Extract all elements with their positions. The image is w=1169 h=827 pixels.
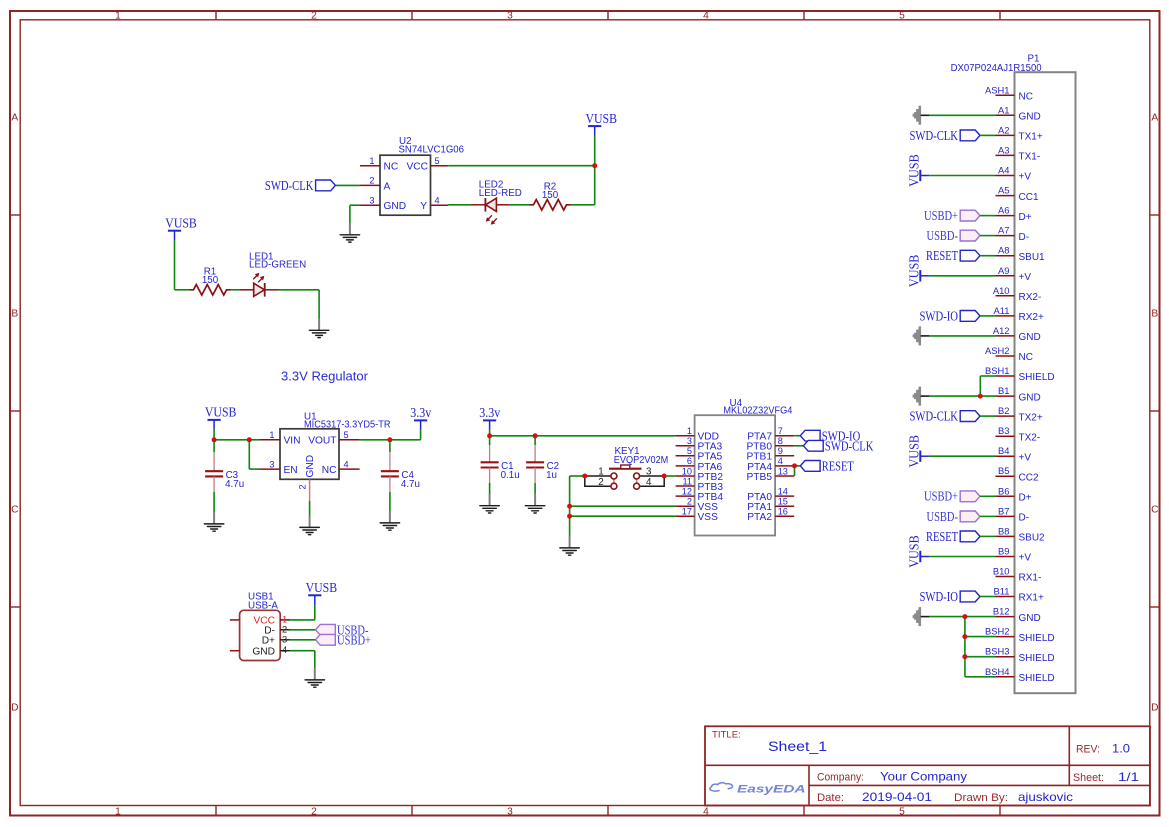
svg-text:D+: D+	[1019, 212, 1032, 223]
pin A10 of P1	[996, 295, 1015, 297]
svg-text:3: 3	[369, 195, 374, 205]
svg-text:TX1+: TX1+	[1019, 132, 1043, 143]
net flag USBD- at P1.A7	[927, 228, 981, 243]
svg-text:RX1+: RX1+	[1019, 593, 1044, 604]
svg-text:BSH3: BSH3	[985, 646, 1010, 657]
wire BSH1 branch vertical	[979, 376, 981, 396]
junction VSS rail / VSS pin 2	[567, 504, 572, 509]
frame row labels right	[1151, 113, 1158, 714]
wire shield rail to BSH2	[965, 636, 996, 638]
svg-text:1: 1	[115, 10, 121, 21]
svg-text:SHIELD: SHIELD	[1019, 673, 1055, 684]
svg-text:+V: +V	[1019, 452, 1032, 463]
svg-text:3: 3	[507, 10, 513, 21]
wire VUSB down to VCC net	[594, 136, 596, 166]
svg-text:A9: A9	[998, 265, 1009, 276]
svg-text:+V: +V	[1019, 272, 1032, 283]
pin 5 PTA5 of U4	[676, 455, 695, 457]
wire USBD- at P1.A7 to P1	[980, 235, 996, 237]
wire to RESET flag	[795, 465, 801, 467]
ground at C4	[380, 512, 399, 530]
pin 7 PTA7 of U4	[775, 435, 794, 437]
junction B12 / shield rail	[962, 614, 967, 619]
svg-text:2019-04-01: 2019-04-01	[862, 791, 932, 804]
svg-text:VUSB: VUSB	[907, 535, 922, 568]
capacitor C3	[205, 471, 223, 476]
wire VSS rail to U4.VSS(17)	[570, 515, 676, 517]
svg-text:A11: A11	[994, 305, 1010, 316]
junction RESET / PTB5	[792, 463, 797, 468]
capacitor C1	[481, 462, 499, 467]
wire RESET at P1.B8 to P1	[980, 535, 996, 537]
svg-text:5: 5	[899, 807, 905, 818]
svg-text:Sheet_1: Sheet_1	[768, 739, 827, 754]
wire C4 to ground	[389, 492, 391, 512]
svg-text:3.3v: 3.3v	[479, 405, 500, 420]
svg-text:4: 4	[703, 807, 709, 818]
svg-text:B7: B7	[998, 505, 1009, 516]
pin 2 of USB1	[280, 629, 290, 631]
pin leg (C3 top leg)	[213, 452, 215, 471]
pin B8 of P1	[996, 535, 1015, 537]
wire SWD-CLK at P1.A2 to P1	[980, 134, 996, 136]
wire SWD-IO at P1.B11 to P1	[980, 596, 996, 598]
junction B1 / BSH1	[978, 394, 983, 399]
pin 16 PTA2 of U4	[775, 515, 794, 517]
pin 13 PTB5 of U4	[775, 475, 794, 477]
svg-text:EN: EN	[284, 465, 298, 476]
ground flag GND at P1.A1	[913, 106, 930, 125]
pin 6 PTA6 of U4	[676, 465, 695, 467]
svg-text:16: 16	[778, 507, 788, 517]
junction VUSB / C3	[212, 437, 217, 442]
frame column ticks bottom	[216, 806, 1000, 816]
title block frame	[705, 726, 1150, 805]
wire BSH1 branch to P1	[980, 375, 995, 377]
svg-text:ajuskovic: ajuskovic	[1018, 791, 1073, 804]
wire U1.GND to ground	[309, 501, 311, 517]
wire shield rail to BSH3	[965, 656, 996, 658]
svg-text:Your Company: Your Company	[880, 771, 967, 784]
pin BSH2 of P1	[996, 636, 1015, 638]
svg-text:B4: B4	[998, 445, 1009, 456]
svg-text:B6: B6	[998, 485, 1009, 496]
pin leg (C3 bottom leg)	[213, 476, 215, 492]
wire SWD-IO at P1.A11 to P1	[980, 315, 996, 317]
svg-text:VSS: VSS	[698, 512, 719, 523]
svg-text:2: 2	[298, 484, 308, 489]
junction C2 / rail	[533, 433, 538, 438]
wire VUSB to P1 (P1.B4)	[929, 455, 995, 457]
svg-text:EVQP2V02M: EVQP2V02M	[614, 455, 669, 466]
svg-text:VOUT: VOUT	[308, 436, 336, 447]
pin leg (C1 bottom leg)	[489, 468, 491, 484]
svg-text:A: A	[11, 113, 18, 124]
svg-text:TX2-: TX2-	[1019, 432, 1041, 443]
wire U2.Y to LED2	[448, 204, 470, 206]
connector P1 DX07P024AJ1R1500 body	[1015, 72, 1076, 693]
wire LED1 to ground corner	[278, 289, 319, 291]
svg-text:5: 5	[344, 430, 349, 440]
svg-text:1.0: 1.0	[1112, 743, 1130, 756]
wire U2.VCC to VUSB	[448, 165, 595, 167]
wire into C3 leg	[213, 440, 215, 452]
svg-text:B9: B9	[998, 546, 1009, 557]
pin leg (C4 bottom leg)	[389, 476, 391, 492]
svg-text:4: 4	[435, 195, 440, 205]
svg-text:2: 2	[687, 497, 692, 507]
wire USB1.GND	[290, 650, 315, 652]
svg-text:SWD-CLK: SWD-CLK	[825, 438, 874, 453]
ground at U2	[340, 224, 359, 242]
pin 4 of USB1	[280, 650, 290, 652]
svg-text:SWD-IO: SWD-IO	[920, 308, 959, 323]
svg-text:USBD+: USBD+	[924, 489, 958, 504]
net flag USBD- at P1.B7	[927, 509, 981, 524]
junction shield rail / BSH3	[962, 654, 967, 659]
op-amp/inverter U2 SN74LVC1G06 body	[380, 155, 431, 215]
pin B6 of P1	[996, 495, 1015, 497]
svg-text:150: 150	[202, 275, 219, 286]
svg-text:1: 1	[369, 156, 374, 166]
svg-text:SWD-IO: SWD-IO	[920, 589, 959, 604]
wire C1 to ground	[489, 483, 491, 495]
net flag USBD- at USB1	[316, 622, 369, 637]
pin A8 of P1	[996, 255, 1015, 257]
svg-text:SHIELD: SHIELD	[1019, 633, 1055, 644]
svg-text:EasyEDA: EasyEDA	[737, 784, 806, 796]
svg-text:VUSB: VUSB	[907, 154, 922, 187]
svg-text:USBD-: USBD-	[927, 228, 959, 243]
wire USB1.D- to USBD- flag	[290, 629, 316, 631]
svg-text:CC1: CC1	[1019, 192, 1039, 203]
svg-text:B11: B11	[994, 586, 1010, 597]
pin 17 VSS of U4	[676, 515, 695, 517]
junction shield rail / BSH2	[962, 634, 967, 639]
svg-text:GND: GND	[1019, 112, 1041, 123]
pin B2 of P1	[996, 415, 1015, 417]
LED LED1	[253, 273, 265, 297]
svg-text:D+: D+	[1019, 493, 1032, 504]
svg-text:Date:: Date:	[817, 792, 844, 804]
svg-text:B12: B12	[993, 606, 1010, 617]
wire U4.PTA7 to SWD-IO flag	[794, 435, 800, 437]
net flag USBD+ at P1.A6	[924, 208, 980, 223]
power flag 3.3v at regulator output	[410, 405, 431, 430]
frame row ticks right	[1150, 215, 1160, 607]
pin 12 PTB4 of U4	[676, 495, 695, 497]
microcontroller U4 MKL02Z32VFG4 body	[695, 415, 776, 535]
svg-text:USBD+: USBD+	[337, 632, 371, 647]
svg-text:14: 14	[778, 486, 788, 496]
svg-text:VIN: VIN	[284, 436, 301, 447]
svg-text:1u: 1u	[546, 470, 557, 481]
ground at U1	[300, 517, 319, 535]
wire VUSB to R1	[175, 289, 190, 291]
power flag VUSB at LED1 branch	[165, 216, 197, 241]
pin 1 of USB1	[280, 619, 290, 621]
pin B11 of P1	[996, 596, 1015, 598]
svg-text:TITLE:: TITLE:	[712, 730, 741, 741]
wire U2.GND horizontal	[350, 204, 360, 206]
svg-text:B1: B1	[998, 385, 1009, 396]
svg-text:CC2: CC2	[1019, 472, 1039, 483]
svg-text:RX2+: RX2+	[1019, 312, 1044, 323]
pin B4 of P1	[996, 455, 1015, 457]
svg-text:2: 2	[369, 176, 374, 186]
pin 4 Y of U2	[431, 204, 449, 206]
pin shell left top of USB1	[230, 619, 240, 621]
wire EN branch vertical	[248, 440, 250, 469]
pin A1 of P1	[996, 114, 1015, 116]
wire VUSB down to USB1.VCC	[314, 605, 316, 620]
svg-text:D+: D+	[262, 636, 275, 647]
svg-text:NC: NC	[1019, 352, 1033, 363]
svg-text:SBU2: SBU2	[1019, 533, 1046, 544]
ground at C1	[480, 495, 499, 513]
svg-text:2: 2	[598, 477, 603, 488]
pin ASH2 of P1	[996, 355, 1015, 357]
svg-text:3: 3	[282, 633, 287, 644]
ground flag GND at P1.B1	[913, 387, 930, 406]
pin 4 PTA4 of U4	[775, 465, 794, 467]
wire shield rail vertical	[964, 617, 966, 677]
svg-text:NC: NC	[322, 465, 337, 476]
power flag VUSB (P1.A4)	[907, 154, 930, 187]
pin leg (C2 bottom leg)	[534, 468, 536, 484]
svg-text:4.7u: 4.7u	[401, 479, 420, 490]
svg-text:A3: A3	[998, 144, 1009, 155]
pin B5 of P1	[996, 475, 1015, 477]
svg-text:SWD-CLK: SWD-CLK	[910, 128, 959, 143]
wire 3.3v flag to rail	[489, 430, 491, 436]
svg-text:B2: B2	[998, 405, 1009, 416]
pin 11 PTB3 of U4	[676, 485, 695, 487]
svg-text:1: 1	[687, 426, 692, 436]
svg-text:A10: A10	[993, 285, 1010, 296]
ground at VSS rail	[560, 537, 579, 555]
svg-text:1: 1	[269, 430, 274, 440]
net flag SWD-CLK at U4	[803, 438, 873, 453]
wire input rail to EN branch	[214, 439, 249, 441]
svg-text:RX1-: RX1-	[1019, 573, 1042, 584]
svg-text:MKL02Z32VFG4: MKL02Z32VFG4	[723, 405, 793, 416]
wire USB1.VCC	[290, 619, 315, 621]
pin 2 A of U2	[360, 184, 380, 186]
wire VUSB node down to R2	[594, 166, 596, 205]
pin 1 NC of U2	[360, 165, 380, 167]
junction VOUT / C4	[387, 437, 392, 442]
svg-text:4.7u: 4.7u	[225, 479, 244, 490]
svg-text:VUSB: VUSB	[586, 111, 618, 126]
pin A3 of P1	[996, 154, 1015, 156]
ground at C3	[204, 513, 223, 531]
LED LED2	[485, 198, 497, 225]
power flag VUSB above U2	[586, 111, 618, 136]
ground at C2	[525, 495, 544, 513]
pin 5 VOUT of U1	[339, 439, 360, 441]
wire GND at P1.A12 to P1	[929, 335, 995, 337]
svg-text:VUSB: VUSB	[205, 405, 237, 420]
pin A7 of P1	[996, 235, 1015, 237]
svg-text:1: 1	[115, 807, 121, 818]
net flag SWD-IO at P1.A11	[920, 308, 981, 323]
svg-text:4: 4	[282, 644, 287, 655]
wire VUSB to P1 (P1.A9)	[929, 275, 995, 277]
svg-text:VUSB: VUSB	[165, 216, 197, 231]
EasyEDA logo	[710, 783, 806, 796]
svg-text:A: A	[1151, 113, 1158, 124]
svg-text:LED-GREEN: LED-GREEN	[249, 260, 306, 271]
wire VSS rail vertical	[569, 476, 571, 537]
power flag 3.3v at U4 supply	[479, 405, 500, 430]
svg-text:5: 5	[435, 156, 440, 166]
power flag VUSB (P1.A9)	[907, 255, 930, 288]
wire USBD+ at P1.A6 to P1	[980, 215, 996, 217]
connector USB1 USB-A body	[240, 610, 281, 660]
pin 8 PTB0 of U4	[775, 445, 794, 447]
ground flag GND at P1.A12	[913, 326, 930, 345]
pin B10 of P1	[996, 576, 1015, 578]
pin 5 VCC of U2	[431, 165, 449, 167]
wire RESET at P1.A8 to P1	[980, 255, 996, 257]
svg-text:SWD-CLK: SWD-CLK	[910, 409, 959, 424]
svg-text:REV:: REV:	[1076, 744, 1100, 756]
wire C2 to ground	[534, 483, 536, 495]
svg-text:USBD+: USBD+	[924, 208, 958, 223]
pin A6 of P1	[996, 215, 1015, 217]
net flag SWD-CLK at P1.A2	[910, 128, 981, 143]
pin shell left bottom of USB1	[230, 650, 240, 652]
svg-text:5: 5	[687, 446, 692, 456]
wire VUSB to input rail	[213, 430, 215, 440]
pin 1 VDD of U4	[676, 435, 695, 437]
svg-text:VCC: VCC	[406, 162, 428, 173]
pin A5 of P1	[996, 195, 1015, 197]
svg-text:NC: NC	[384, 162, 399, 173]
wire USB1.GND down	[314, 651, 316, 669]
svg-text:B: B	[11, 309, 18, 320]
wire into C4 leg	[389, 440, 391, 452]
svg-text:D: D	[11, 703, 18, 714]
capacitor C2	[526, 462, 544, 467]
svg-text:SWD-CLK: SWD-CLK	[265, 178, 314, 193]
net flag SWD-CLK at P1.B2	[910, 409, 981, 424]
wire GND at P1.B1 to P1	[929, 395, 995, 397]
wire USBD- at P1.B7 to P1	[980, 515, 996, 517]
svg-text:ASH1: ASH1	[985, 84, 1010, 95]
frame row labels left	[11, 113, 18, 714]
wire 3.3v rail to U4.VDD	[490, 435, 676, 437]
junction C1 / rail	[487, 433, 492, 438]
svg-text:C: C	[11, 505, 18, 516]
wire KEY1 to VSS rail	[570, 475, 585, 477]
junction VUSB / R2 node	[592, 163, 597, 168]
svg-text:12: 12	[682, 486, 692, 496]
frame column labels bottom	[115, 807, 905, 818]
svg-text:RESET: RESET	[822, 459, 854, 474]
svg-text:+V: +V	[1019, 172, 1032, 183]
pin B1 of P1	[996, 395, 1015, 397]
svg-text:11: 11	[682, 476, 692, 486]
wire VUSB down (LED1 branch)	[174, 241, 176, 290]
power flag VUSB above USB1	[306, 580, 338, 605]
net flag USBD+ at P1.B6	[924, 489, 980, 504]
pin cathode LED1	[265, 289, 278, 291]
net flag SWD-IO at P1.B11	[920, 589, 981, 604]
wire VSS rail to U4.VSS(2)	[570, 505, 676, 507]
resistor R2	[530, 200, 571, 210]
pin ASH1 of P1	[996, 94, 1015, 96]
svg-text:USB-A: USB-A	[248, 601, 278, 612]
svg-text:MIC5317-3.3YD5-TR: MIC5317-3.3YD5-TR	[304, 420, 391, 431]
svg-text:A7: A7	[998, 225, 1009, 236]
svg-text:17: 17	[682, 507, 692, 517]
svg-text:4: 4	[703, 10, 709, 21]
wire shield rail to BSH4	[965, 676, 996, 678]
wire into C2 leg	[534, 436, 536, 445]
junction VIN / EN branch	[247, 437, 252, 442]
svg-text:SHIELD: SHIELD	[1019, 653, 1055, 664]
svg-text:Company:: Company:	[817, 772, 864, 784]
svg-text:GND: GND	[1019, 613, 1041, 624]
pin 3 PTA3 of U4	[676, 445, 695, 447]
svg-text:150: 150	[542, 190, 559, 201]
junction KEY1 left	[582, 474, 587, 479]
svg-text:A2: A2	[998, 124, 1009, 135]
pin 3 EN of U1	[260, 468, 281, 470]
svg-text:B5: B5	[998, 465, 1009, 476]
svg-text:A1: A1	[998, 104, 1009, 115]
net flag USBD+ at USB1	[316, 632, 372, 647]
wire down to ground (LED1)	[318, 290, 320, 320]
ground at USB1	[305, 669, 324, 687]
capacitor C4	[381, 471, 399, 476]
pin anode LED1	[240, 289, 254, 291]
svg-text:2: 2	[311, 10, 317, 21]
svg-text:RESET: RESET	[926, 248, 958, 263]
wire KEY1 to U4.PTB2	[664, 475, 675, 477]
wire SWD-CLK to U2.A	[335, 184, 360, 186]
wire SWD-CLK at P1.B2 to P1	[980, 415, 996, 417]
power flag VUSB (P1.B4)	[907, 435, 930, 468]
power flag VUSB at regulator input	[205, 405, 237, 430]
svg-text:C: C	[1151, 505, 1158, 516]
svg-text:8: 8	[778, 436, 783, 446]
pin 3 GND of U2	[360, 204, 380, 206]
wire U4.PTB0 to SWD-CLK flag	[794, 445, 803, 447]
svg-text:6: 6	[687, 456, 692, 466]
svg-text:B: B	[1151, 309, 1158, 320]
svg-text:3: 3	[507, 807, 513, 818]
pin cathode LED2	[496, 204, 509, 206]
svg-text:A12: A12	[993, 325, 1010, 336]
svg-text:D-: D-	[1019, 232, 1030, 243]
svg-text:B8: B8	[998, 525, 1009, 536]
wire U1.VOUT to 3.3v flag	[360, 439, 421, 441]
junction KEY1 right	[662, 474, 667, 479]
svg-text:LED-RED: LED-RED	[479, 188, 522, 199]
wire C3 to ground	[213, 492, 215, 513]
svg-text:1/1: 1/1	[1118, 771, 1139, 784]
svg-text:RESET: RESET	[926, 529, 958, 544]
wire VUSB to P1 (P1.B9)	[929, 556, 995, 558]
svg-text:Drawn By:: Drawn By:	[954, 792, 1008, 804]
pin 1 VIN of U1	[260, 439, 281, 441]
svg-text:0.1u: 0.1u	[501, 470, 520, 481]
svg-text:GND: GND	[1019, 392, 1041, 403]
svg-text:TX2+: TX2+	[1019, 412, 1043, 423]
